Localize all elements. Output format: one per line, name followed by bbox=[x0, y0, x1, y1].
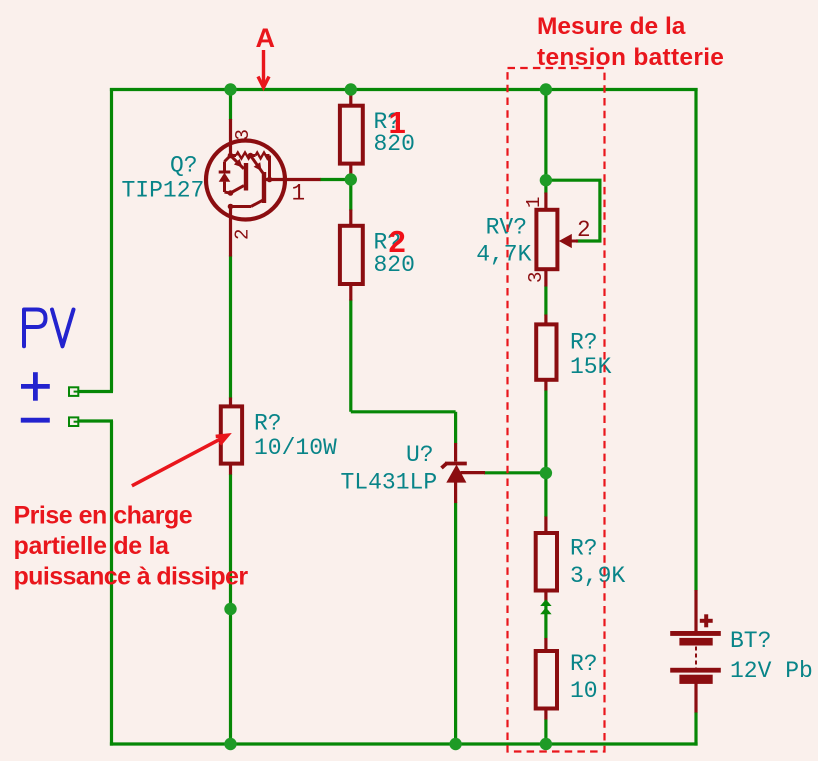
wire bbox=[110, 88, 113, 392]
junction bbox=[345, 83, 357, 95]
junction bbox=[540, 738, 552, 750]
svg-text:3: 3 bbox=[525, 272, 547, 283]
wire bbox=[484, 471, 546, 474]
PV plus symbol bbox=[21, 372, 50, 401]
resistor R1 820 bbox=[340, 106, 363, 164]
wire bbox=[351, 410, 456, 413]
junction bbox=[540, 174, 552, 186]
R 15K top pin bbox=[544, 315, 547, 324]
junction bbox=[540, 467, 552, 479]
battery plus mark bbox=[700, 614, 713, 627]
U1 anode pin bbox=[454, 482, 457, 503]
svg-text:10/10W: 10/10W bbox=[254, 435, 337, 461]
wire bbox=[110, 88, 698, 91]
wire bbox=[544, 90, 547, 181]
svg-text:2: 2 bbox=[232, 229, 254, 240]
RV? wiper arrow bbox=[559, 234, 578, 248]
shunt regulator U? TL431LP bbox=[442, 464, 467, 483]
svg-text:Mesure de la: Mesure de la bbox=[537, 13, 686, 40]
junction bbox=[224, 83, 236, 95]
Q1 pin 2 (collector) bbox=[229, 204, 232, 257]
wire bbox=[78, 419, 113, 422]
wire bbox=[229, 90, 232, 121]
BT1 minus pin bbox=[694, 682, 697, 713]
resistor R? 3.9K bbox=[536, 533, 557, 591]
svg-text:2: 2 bbox=[577, 217, 591, 243]
svg-text:puissance à dissiper: puissance à dissiper bbox=[14, 562, 249, 590]
PV minus symbol bbox=[21, 418, 50, 423]
wire bbox=[694, 88, 697, 591]
junction bbox=[224, 738, 236, 750]
R 3.9K top pin bbox=[544, 517, 547, 532]
junction bbox=[449, 738, 461, 750]
resistor R2 820 bbox=[340, 226, 363, 284]
svg-text:U?: U? bbox=[406, 442, 434, 468]
svg-text:TIP127: TIP127 bbox=[122, 178, 205, 204]
annotation arrow to dissipation resistor bbox=[132, 435, 228, 486]
U1 ref pin bbox=[461, 471, 486, 474]
resistor R? 10/10W bbox=[221, 406, 242, 463]
transistor Q1 TIP127 bbox=[206, 141, 285, 220]
wire bbox=[544, 390, 547, 517]
wire bbox=[546, 180, 600, 241]
svg-text:TL431LP: TL431LP bbox=[341, 470, 438, 496]
RV1 pin 1 bbox=[544, 193, 547, 209]
R 3.9K bottom pin bbox=[544, 592, 547, 601]
svg-text:tension batterie: tension batterie bbox=[537, 44, 724, 71]
wire bbox=[78, 390, 113, 393]
PV plus terminal square bbox=[69, 387, 78, 396]
R 10 bottom pin bbox=[544, 710, 547, 720]
wire bbox=[544, 603, 547, 639]
RV1 pin 3 bbox=[544, 271, 547, 287]
svg-text:R?: R? bbox=[570, 330, 598, 356]
svg-text:R?: R? bbox=[254, 411, 282, 437]
wire bbox=[454, 412, 457, 444]
svg-text:3: 3 bbox=[232, 129, 254, 140]
wire bbox=[110, 421, 113, 746]
R2 top pin bbox=[349, 210, 352, 225]
svg-text:1: 1 bbox=[292, 181, 306, 207]
annotation arrow A bbox=[258, 50, 269, 88]
R1 top pin bbox=[349, 90, 352, 105]
U1 cathode pin bbox=[454, 443, 457, 462]
wire bbox=[349, 300, 352, 412]
svg-text:3,9K: 3,9K bbox=[570, 563, 625, 589]
battery internal dashed link bbox=[695, 647, 697, 669]
wire bbox=[110, 742, 698, 745]
wire-end arrow marks bbox=[540, 599, 551, 614]
svg-text:R?: R? bbox=[570, 536, 598, 562]
wire bbox=[544, 180, 547, 193]
svg-text:10: 10 bbox=[570, 678, 598, 704]
svg-text:1: 1 bbox=[389, 105, 406, 140]
wire bbox=[229, 256, 232, 399]
wire bbox=[694, 712, 697, 746]
svg-text:Q?: Q? bbox=[170, 153, 198, 179]
svg-text:Prise en charge: Prise en charge bbox=[14, 501, 193, 529]
Q1 pin 1 (base) bbox=[266, 178, 321, 181]
junction bbox=[224, 603, 236, 615]
Q1 pin 3 (emitter) bbox=[229, 119, 232, 156]
svg-text:partielle de la: partielle de la bbox=[14, 532, 171, 560]
svg-text:BT?: BT? bbox=[730, 628, 771, 654]
resistor R? 15K bbox=[536, 324, 556, 379]
svg-text:RV?: RV? bbox=[486, 214, 527, 240]
wire bbox=[544, 286, 547, 316]
battery BT? 12V Pb bbox=[670, 631, 721, 684]
svg-text:A: A bbox=[256, 23, 276, 53]
R1 bottom pin bbox=[349, 165, 352, 180]
svg-text:R?: R? bbox=[570, 651, 598, 677]
annotation dashed measure box bbox=[508, 68, 605, 752]
R2 bottom pin bbox=[349, 286, 352, 301]
wire bbox=[454, 503, 457, 745]
svg-text:2: 2 bbox=[389, 224, 406, 259]
svg-text:4,7K: 4,7K bbox=[476, 241, 531, 267]
R 15K bottom pin bbox=[544, 381, 547, 391]
junction bbox=[345, 173, 357, 185]
resistor R? 10 bbox=[536, 651, 557, 709]
svg-text:1: 1 bbox=[523, 197, 545, 208]
potentiometer RV? 4.7K body bbox=[536, 210, 557, 269]
R dissip top pin bbox=[229, 398, 232, 407]
R 10 top pin bbox=[544, 638, 547, 650]
junction bbox=[540, 83, 552, 95]
wire bbox=[229, 474, 232, 744]
PV minus terminal square bbox=[69, 417, 78, 426]
R dissip bottom pin bbox=[229, 465, 232, 475]
wire bbox=[349, 180, 352, 211]
wire bbox=[544, 719, 547, 744]
wire bbox=[320, 178, 351, 181]
node PV label bbox=[24, 310, 74, 347]
svg-text:12V Pb: 12V Pb bbox=[730, 658, 813, 684]
BT1 plus pin bbox=[694, 590, 697, 633]
